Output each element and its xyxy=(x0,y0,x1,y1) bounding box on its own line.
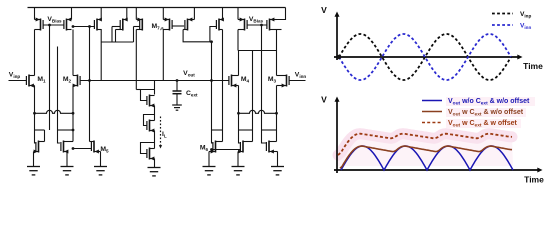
svg-text:V: V xyxy=(321,5,327,15)
svg-text:V: V xyxy=(321,95,327,105)
svg-text:Time: Time xyxy=(523,61,543,71)
svg-text:Time: Time xyxy=(524,175,544,185)
